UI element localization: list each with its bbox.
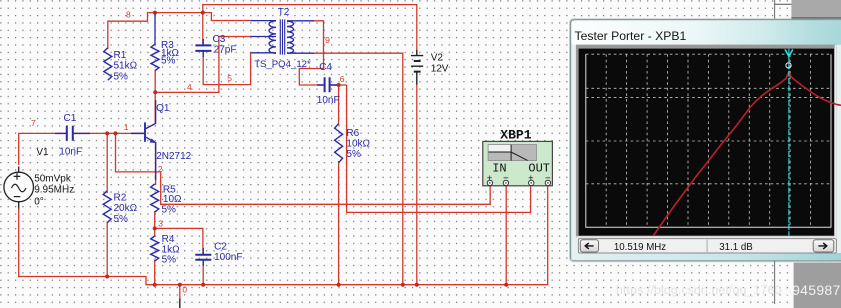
wire net2 emitter to R5	[155, 143, 157, 185]
svg-text:8: 8	[126, 10, 131, 20]
junction bus R2	[105, 275, 109, 279]
svg-text:3: 3	[158, 219, 163, 229]
resistor R1	[104, 48, 112, 81]
svg-text:50mVpk: 50mVpk	[34, 174, 72, 185]
svg-text:10kΩ: 10kΩ	[346, 139, 370, 150]
capacitor C4 leads	[317, 84, 337, 86]
svg-text:9.95MHz: 9.95MHz	[34, 185, 74, 196]
wire R6 bottom to bus	[338, 161, 340, 285]
svg-text:31.1 dB: 31.1 dB	[719, 242, 752, 253]
svg-text:5%: 5%	[114, 214, 129, 225]
svg-text:1: 1	[124, 122, 129, 132]
svg-text:C2: C2	[214, 242, 227, 253]
capacitor C2 plates	[195, 255, 211, 260]
gray area top right	[791, 0, 841, 17]
svg-text:9: 9	[325, 35, 330, 45]
cursor line	[788, 49, 790, 236]
svg-text:4: 4	[187, 82, 192, 92]
resistor R6	[335, 124, 343, 163]
svg-text:6: 6	[340, 74, 345, 84]
svg-text:5%: 5%	[162, 205, 177, 216]
wire net6 C4 right junction	[331, 84, 347, 86]
cursor handle	[785, 49, 793, 56]
sheet border horizontal line	[775, 3, 792, 5]
terminal IN+	[487, 180, 492, 185]
wire net8 to T2 primary top	[203, 13, 252, 21]
wire net4 R3 bottom to Q1 collector	[154, 70, 156, 123]
svg-text:5: 5	[227, 73, 232, 83]
gray area bottom right	[794, 263, 841, 308]
resistor R5	[151, 184, 159, 212]
wire net6 to R6 top	[338, 85, 340, 125]
wire T2 secondary bottom to bus	[313, 53, 403, 285]
svg-text:R2: R2	[114, 193, 127, 204]
wire net1 base node down to R2	[106, 133, 108, 193]
svg-text:2: 2	[158, 164, 163, 174]
wire net4 collector to T2 tap	[155, 37, 252, 93]
ground stub black tip	[179, 299, 181, 308]
wire bode IN minus to bus	[505, 187, 507, 285]
capacitor C1 plates	[67, 126, 73, 141]
battery V2	[411, 50, 423, 85]
capacitor C3 plates	[195, 45, 211, 51]
junction bus R4	[153, 283, 157, 287]
plot frame	[576, 45, 836, 238]
svg-text:5%: 5%	[114, 72, 129, 83]
wire R2 bottom to bus	[106, 222, 108, 277]
svg-text:2N2712: 2N2712	[156, 151, 191, 162]
wire net1 V1 top to C1	[19, 133, 66, 165]
svg-text:20kΩ: 20kΩ	[114, 203, 138, 214]
transformer T2	[251, 19, 315, 54]
svg-text:12V: 12V	[431, 64, 449, 75]
bode plotter XBP1	[483, 127, 553, 185]
sheet border vertical line bottom right	[774, 261, 776, 304]
junction node1 at R2	[105, 131, 109, 135]
junction node6	[337, 83, 341, 87]
svg-text:Tester Porter - XPB1: Tester Porter - XPB1	[575, 29, 687, 43]
svg-text:V2: V2	[431, 53, 444, 64]
junction bus R6	[337, 283, 341, 287]
wire net0 ground bus	[19, 187, 548, 285]
svg-text:10nF: 10nF	[317, 95, 340, 106]
wire C2 bottom to bus	[202, 260, 204, 285]
response curve	[654, 72, 841, 235]
junction bus ground	[178, 283, 182, 287]
svg-text:27pF: 27pF	[214, 45, 237, 56]
wire net3 R5 bottom to R4 top	[154, 211, 156, 237]
terminal OUT+	[529, 180, 534, 185]
wire net6 to bode OUT plus	[347, 85, 531, 212]
svg-text:5%: 5%	[346, 149, 361, 160]
svg-text:C4: C4	[319, 62, 332, 73]
svg-text:51kΩ: 51kΩ	[114, 61, 138, 72]
bode plotter window Tester Porter - XPB1	[569, 18, 841, 262]
svg-text:R4: R4	[162, 234, 175, 245]
wire net8 junction to R3 top (blue pin)	[154, 14, 156, 46]
right arrow button	[813, 240, 834, 252]
wire net5 C3 bottom to T2 primary bottom	[203, 52, 250, 85]
resistor R3	[151, 44, 159, 71]
axes box	[586, 54, 831, 227]
junction bus IN minus	[504, 283, 508, 287]
SCHEMATIC_WIRES	[19, 5, 548, 299]
junction bus V2	[415, 283, 419, 287]
grid vertical dashed lines	[606, 54, 810, 227]
svg-text:5%: 5%	[161, 56, 176, 67]
junction bus C2	[201, 283, 205, 287]
svg-text:10nF: 10nF	[59, 147, 82, 158]
capacitor C1 leads	[55, 132, 90, 134]
junction bus T2sec	[401, 283, 405, 287]
svg-text:5945987: 5945987	[784, 282, 841, 298]
svg-text:T2: T2	[278, 7, 290, 18]
svg-text:7: 7	[31, 118, 36, 128]
wire net1 base tap to bode IN plus	[116, 133, 491, 204]
svg-text:0: 0	[182, 284, 187, 294]
svg-text:TS_PQ4_12*: TS_PQ4_12*	[254, 59, 311, 70]
junction node8 main	[201, 11, 205, 15]
wire net8 to V2 plus	[203, 5, 417, 51]
wire net8 to C3 top	[202, 13, 204, 44]
resistor R4	[151, 236, 159, 261]
wire net9 T2 secondary top to C4	[299, 21, 323, 85]
wire V2 bottom to bus	[416, 84, 418, 285]
junction node1 at base tap	[114, 131, 118, 135]
svg-text:0°: 0°	[34, 197, 44, 208]
cursor marker circle	[786, 63, 791, 68]
resistor R2	[103, 191, 111, 223]
sheet border vertical line top right	[774, 0, 776, 19]
capacitor C4 plates	[325, 77, 330, 92]
svg-text:5%: 5%	[162, 255, 177, 266]
COMPONENTS	[103, 14, 342, 262]
capacitor C3 leads	[202, 39, 204, 57]
ac source V1	[4, 167, 34, 209]
svg-text:C3: C3	[213, 34, 226, 45]
terminal IN-	[503, 180, 508, 185]
svg-text:10.519 MHz: 10.519 MHz	[614, 242, 666, 253]
svg-text:C1: C1	[64, 113, 77, 124]
svg-text:100nF: 100nF	[214, 252, 242, 263]
svg-text:Q1: Q1	[156, 103, 170, 114]
svg-text:XBP1: XBP1	[500, 127, 531, 142]
svg-text:R6: R6	[346, 128, 359, 139]
wire net8 R1 top to junctions	[108, 13, 203, 49]
svg-text:R1: R1	[114, 50, 127, 61]
junction node4 collector	[153, 90, 157, 94]
svg-text:10Ω: 10Ω	[163, 194, 182, 205]
svg-text:https://blog.csdn.net/qq_1760: https://blog.csdn.net/qq_1760	[616, 283, 781, 297]
junction node8 at R3 top	[153, 11, 157, 15]
wire R4 bottom to bus	[154, 260, 156, 285]
left arrow button	[580, 240, 598, 252]
wire net3 to C2 top	[155, 228, 203, 254]
wire net1 C1 to Q1 base	[74, 132, 145, 134]
wire ground stub	[179, 285, 181, 299]
terminal OUT-	[545, 180, 550, 185]
readout bar	[578, 239, 836, 253]
transistor Q1	[131, 100, 156, 180]
capacitor C2 leads	[202, 248, 204, 266]
grid horizontal dashed lines	[586, 54, 831, 184]
svg-text:V1: V1	[36, 147, 49, 158]
junction node3	[153, 226, 157, 230]
